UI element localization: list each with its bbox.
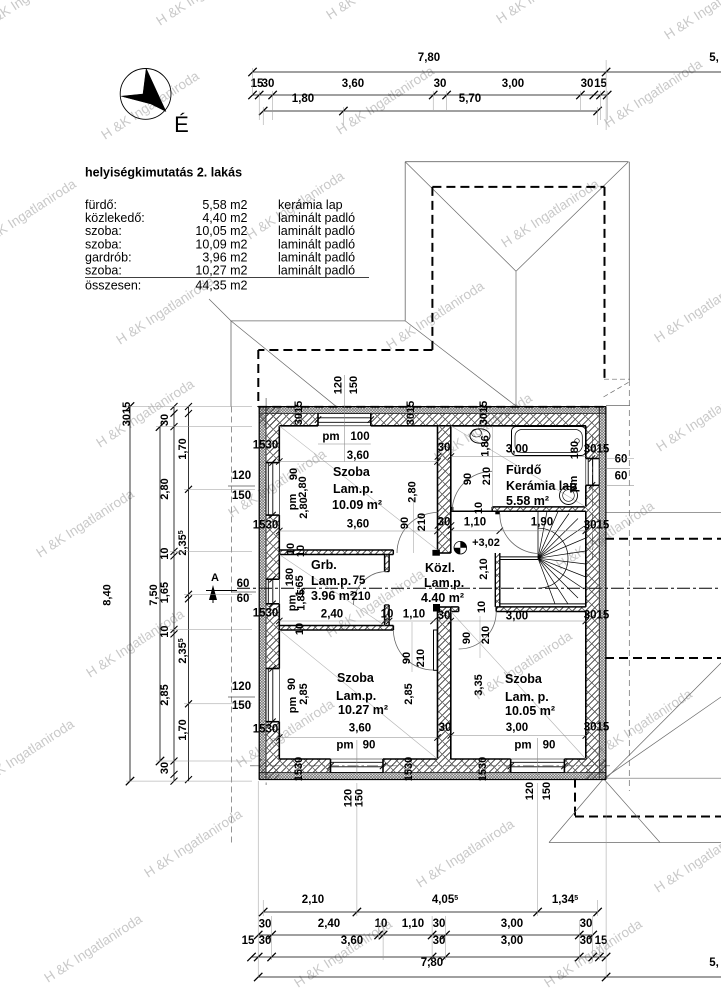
svg-text:fürdő:: fürdő:	[85, 198, 117, 212]
svg-text:3,00: 3,00	[501, 935, 523, 947]
exterior wall right: dense band	[599, 407, 606, 780]
windows bottom wall	[331, 761, 384, 763]
svg-text:210: 210	[481, 467, 493, 485]
svg-text:laminált padló: laminált padló	[278, 224, 355, 238]
svg-text:2,80: 2,80	[159, 478, 171, 499]
svg-text:150: 150	[232, 490, 251, 502]
svg-text:pm: pm	[514, 740, 531, 752]
north arrow compass	[120, 69, 189, 138]
roof outline upper block	[405, 161, 628, 163]
svg-text:Szoba: Szoba	[337, 671, 375, 685]
svg-text:10.27 m²: 10.27 m²	[338, 703, 388, 717]
svg-text:3,00: 3,00	[506, 611, 528, 623]
svg-text:2,85: 2,85	[403, 683, 415, 704]
interior dim ticks	[276, 458, 282, 464]
svg-text:3,60: 3,60	[347, 450, 369, 462]
svg-text:5,: 5,	[709, 52, 719, 64]
wall thin szoba1/grb south y550	[279, 550, 393, 555]
svg-text:10.09 m²: 10.09 m²	[332, 498, 382, 512]
svg-text:laminált padló: laminált padló	[278, 237, 355, 251]
roof valley bottom right	[604, 382, 631, 398]
svg-text:szoba:: szoba:	[85, 237, 122, 251]
roof hip lines	[405, 162, 516, 272]
svg-text:Lam.p.: Lam.p.	[333, 482, 373, 496]
exterior wall top: dense band	[259, 407, 606, 414]
svg-text:2,10: 2,10	[302, 894, 324, 906]
wall thin grb/corridor vertical x384.6	[385, 555, 390, 572]
svg-text:120: 120	[232, 681, 251, 693]
svg-text:3015: 3015	[584, 520, 610, 532]
svg-text:Lam. p.: Lam. p.	[505, 690, 549, 704]
svg-text:pm: pm	[287, 697, 299, 714]
svg-text:15: 15	[594, 78, 607, 90]
svg-text:3,35: 3,35	[473, 674, 485, 695]
svg-text:60: 60	[615, 454, 628, 466]
left extension lines	[126, 406, 252, 408]
svg-text:3,00: 3,00	[506, 722, 528, 734]
left dimension columns	[129, 407, 131, 782]
svg-text:1,86: 1,86	[480, 435, 492, 456]
svg-text:10,27 m2: 10,27 m2	[195, 264, 247, 278]
svg-text:30: 30	[259, 919, 272, 931]
svg-text:2,40: 2,40	[321, 609, 343, 621]
svg-text:30: 30	[580, 935, 593, 947]
svg-text:10.05 m²: 10.05 m²	[505, 704, 555, 718]
wall thin stairwell bottom y606.9	[451, 607, 459, 612]
bathtub	[512, 427, 586, 456]
exterior wall left: hatch piers	[266, 407, 279, 463]
svg-text:+3,02: +3,02	[472, 537, 500, 549]
svg-text:összesen:: összesen:	[85, 279, 141, 293]
svg-text:1530: 1530	[403, 757, 415, 781]
roof wing eaves	[231, 320, 405, 322]
top wall inner face lines	[279, 425, 318, 427]
svg-text:laminált padló: laminált padló	[278, 264, 355, 278]
svg-text:Közl.: Közl.	[425, 561, 455, 575]
svg-text:pm: pm	[336, 740, 353, 752]
left wall pier edges	[266, 462, 279, 464]
svg-text:1,80: 1,80	[292, 93, 314, 105]
svg-text:30: 30	[438, 442, 451, 454]
svg-text:1,90: 1,90	[531, 517, 553, 529]
svg-text:10: 10	[381, 609, 394, 621]
svg-text:15: 15	[242, 935, 255, 947]
svg-text:gardrób:: gardrób:	[85, 250, 132, 264]
svg-text:A: A	[211, 572, 219, 584]
svg-text:10: 10	[159, 625, 171, 637]
top extension lines	[252, 68, 254, 95]
right wall inner face	[585, 426, 587, 459]
svg-text:3,60: 3,60	[349, 723, 371, 735]
svg-text:Lam.p.: Lam.p.	[311, 574, 351, 588]
left wall inner face	[278, 426, 280, 463]
svg-text:1530: 1530	[253, 440, 279, 452]
svg-text:5,: 5,	[709, 957, 719, 969]
svg-text:90: 90	[462, 473, 474, 485]
svg-text:90: 90	[399, 517, 411, 529]
windows left wall	[267, 463, 269, 515]
svg-text:kerámia lap: kerámia lap	[278, 198, 343, 212]
dashed upper-floor outline right side	[605, 538, 721, 540]
svg-text:szoba:: szoba:	[85, 264, 122, 278]
svg-text:150: 150	[541, 782, 553, 800]
svg-text:Szoba: Szoba	[333, 465, 371, 479]
svg-text:10: 10	[295, 545, 307, 557]
svg-text:helyiségkimutatás 2. lakás: helyiségkimutatás 2. lakás	[85, 166, 242, 180]
building outer edge	[259, 406, 606, 408]
svg-text:1,85: 1,85	[296, 589, 308, 610]
exterior wall left: dense band	[259, 407, 266, 780]
section line A-A	[206, 590, 237, 592]
svg-text:pm: pm	[568, 476, 580, 493]
svg-text:2,85: 2,85	[159, 684, 171, 705]
svg-text:30: 30	[159, 414, 171, 426]
svg-text:30: 30	[438, 517, 451, 529]
svg-text:10,09 m2: 10,09 m2	[195, 237, 247, 251]
svg-text:3015: 3015	[293, 401, 305, 425]
svg-text:3015: 3015	[478, 401, 490, 425]
svg-text:30: 30	[262, 78, 275, 90]
svg-text:3.96 m²: 3.96 m²	[311, 589, 354, 603]
svg-text:3,00: 3,00	[501, 918, 523, 930]
svg-text:3015: 3015	[584, 610, 610, 622]
svg-text:4,40 m2: 4,40 m2	[202, 211, 247, 225]
exterior wall right: hatch segments	[586, 426, 599, 459]
svg-text:Kerámia lap: Kerámia lap	[506, 479, 577, 493]
svg-text:210: 210	[480, 626, 492, 644]
svg-text:1,10: 1,10	[402, 918, 424, 930]
wall axis dash-dot lines	[265, 398, 267, 788]
svg-text:Fürdő: Fürdő	[506, 463, 542, 477]
svg-text:É: É	[174, 112, 189, 137]
svg-text:90: 90	[543, 740, 556, 752]
exterior wall bottom: hatch segments	[259, 759, 330, 773]
svg-text:90: 90	[401, 652, 413, 664]
top dimension rows	[253, 71, 721, 73]
svg-text:60: 60	[615, 471, 628, 483]
svg-text:150: 150	[354, 789, 366, 807]
svg-text:1,10: 1,10	[403, 609, 425, 621]
svg-text:1530: 1530	[477, 757, 489, 781]
svg-text:120: 120	[524, 782, 536, 800]
svg-text:szoba:: szoba:	[85, 224, 122, 238]
svg-text:3015: 3015	[121, 402, 133, 426]
svg-text:4.40 m²: 4.40 m²	[421, 591, 464, 605]
svg-text:30: 30	[439, 722, 452, 734]
svg-text:75: 75	[353, 575, 366, 587]
svg-text:Szoba: Szoba	[505, 672, 543, 686]
svg-text:1,70: 1,70	[177, 719, 189, 740]
svg-text:2,85: 2,85	[298, 683, 310, 704]
svg-text:laminált padló: laminált padló	[278, 250, 355, 264]
bottom wall inner face	[279, 758, 330, 760]
svg-text:3,60: 3,60	[342, 78, 364, 90]
svg-text:3,00: 3,00	[502, 78, 524, 90]
svg-text:10: 10	[294, 623, 306, 635]
svg-text:30: 30	[259, 935, 272, 947]
svg-text:30: 30	[580, 918, 593, 930]
door szoba1 arc	[397, 513, 438, 554]
svg-text:1,65: 1,65	[159, 582, 171, 603]
svg-text:3015: 3015	[584, 722, 610, 734]
svg-text:30: 30	[433, 918, 446, 930]
svg-text:2,40: 2,40	[318, 918, 340, 930]
svg-text:10: 10	[375, 918, 388, 930]
window glazing end caps	[268, 462, 273, 464]
svg-text:30: 30	[159, 762, 171, 774]
door jamb stubs	[432, 550, 440, 556]
door bathroom arc	[452, 471, 492, 511]
dashed upper-floor outline	[432, 186, 604, 188]
svg-text:1,70: 1,70	[177, 438, 189, 459]
window right wall 60	[587, 459, 589, 486]
svg-text:3,96 m2: 3,96 m2	[202, 250, 247, 264]
svg-text:2,80: 2,80	[407, 481, 419, 502]
stairs winder	[500, 556, 538, 558]
wall thin stair/corridor x495.3	[495, 553, 500, 607]
svg-text:pm: pm	[322, 431, 339, 443]
svg-text:2,10: 2,10	[478, 558, 490, 579]
svg-text:1530: 1530	[253, 608, 279, 620]
svg-text:3015: 3015	[584, 444, 610, 456]
svg-text:90: 90	[286, 678, 298, 690]
svg-text:120: 120	[232, 470, 251, 482]
svg-text:100: 100	[350, 431, 369, 443]
svg-text:44,35 m2: 44,35 m2	[195, 279, 247, 293]
bottom extension lines	[257, 781, 259, 977]
light dashed roof edge continuation	[628, 380, 630, 791]
svg-text:30: 30	[433, 935, 446, 947]
exterior wall top: 30cm hatch segments	[259, 414, 318, 426]
svg-text:8,40: 8,40	[102, 584, 114, 605]
svg-text:120: 120	[333, 376, 345, 394]
svg-text:Grb.: Grb.	[311, 558, 337, 572]
wc toilet	[470, 429, 490, 443]
svg-text:3,60: 3,60	[347, 519, 369, 531]
svg-text:30: 30	[434, 78, 447, 90]
svg-text:5.58 m²: 5.58 m²	[506, 494, 549, 508]
svg-text:1530: 1530	[253, 520, 279, 532]
svg-text:10: 10	[159, 547, 171, 559]
neighbour roof eaves bottom right	[549, 842, 721, 844]
svg-text:60: 60	[237, 578, 250, 590]
thin inner-face lines across window gaps	[278, 463, 280, 515]
svg-text:közlekedő:: közlekedő:	[85, 211, 145, 225]
svg-text:1530: 1530	[253, 724, 279, 736]
svg-text:Lam.p.: Lam.p.	[336, 689, 376, 703]
pm100 dim line	[318, 443, 371, 445]
door grb arc	[354, 572, 387, 605]
bottom dimension rows	[263, 911, 597, 913]
svg-text:10: 10	[473, 502, 485, 514]
svg-text:5,70: 5,70	[459, 93, 481, 105]
exterior wall bottom: dense band	[259, 773, 606, 780]
svg-text:3,00: 3,00	[506, 444, 528, 456]
svg-text:7,80: 7,80	[418, 52, 440, 64]
svg-text:210: 210	[415, 649, 427, 667]
svg-text:1530: 1530	[293, 757, 305, 781]
svg-text:3015: 3015	[405, 401, 417, 425]
svg-text:210: 210	[416, 513, 428, 531]
room diagonal leader lines	[279, 426, 437, 550]
svg-text:30: 30	[438, 610, 451, 622]
svg-text:90: 90	[461, 632, 473, 644]
svg-text:90: 90	[363, 740, 376, 752]
svg-text:3,60: 3,60	[341, 935, 363, 947]
window top wall 120/150	[318, 414, 371, 426]
elevation level marker	[454, 541, 467, 554]
svg-text:180: 180	[569, 441, 581, 459]
door szoba2 leaf and arc	[434, 630, 438, 670]
svg-text:210: 210	[351, 591, 370, 603]
svg-text:1,10: 1,10	[464, 517, 486, 529]
svg-text:10,05 m2: 10,05 m2	[195, 224, 247, 238]
interior wall 30cm vertical	[438, 426, 451, 553]
svg-text:30: 30	[581, 78, 594, 90]
door szoba3 arc	[459, 612, 497, 650]
washbasin	[560, 487, 578, 505]
svg-text:60: 60	[237, 593, 250, 605]
wall thin bathroom bottom y506.9	[492, 507, 586, 511]
svg-text:5,58 m2: 5,58 m2	[202, 198, 247, 212]
svg-text:2,80: 2,80	[298, 497, 310, 518]
svg-text:150: 150	[348, 376, 360, 394]
svg-text:10: 10	[476, 601, 488, 613]
wall thin grb bottom y625.5	[279, 626, 393, 631]
door stairwell arc	[500, 514, 540, 554]
svg-text:laminált padló: laminált padló	[278, 211, 355, 225]
svg-text:Lam.p.: Lam.p.	[424, 576, 464, 590]
svg-text:150: 150	[232, 700, 251, 712]
